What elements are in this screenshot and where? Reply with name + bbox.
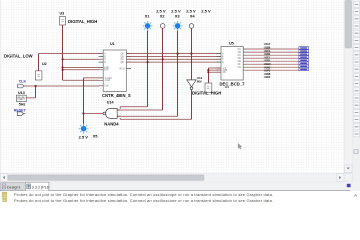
svg-text:5Hz: 5Hz [19,103,26,107]
component U2 (DIGITAL_LOW constant) [35,62,46,80]
node net labels column [264,42,271,79]
svg-text:OB: OB [238,52,242,54]
wire branch to U1 pin ENT [63,69,100,71]
svg-text:DIGITAL_HIGH: DIGITAL_HIGH [68,19,97,24]
pin stubs right of U1 [126,54,131,69]
svg-text:DEC_BCD_7: DEC_BCD_7 [220,81,246,86]
probe X1 (lit) [143,8,166,31]
svg-text:QC: QC [121,59,125,61]
wire branch to U1 pin CLR [63,79,100,81]
svg-text:NAND4: NAND4 [104,121,119,126]
svg-text:U14: U14 [107,100,115,104]
node junction NAND output / X5 [83,113,85,115]
wire U3 vertical to U1 rows [62,25,64,80]
component J1 (blue connector stack) [299,47,309,71]
svg-text:U1K2: U1K2 [264,75,271,79]
pin stubs right of U5 [243,49,248,70]
svg-text:U4: U4 [225,85,229,89]
op U5 (DEC_BCD_7 decoder) [217,42,249,87]
wire NAND input 3 stub [117,115,120,117]
wire QC bus line [127,58,221,60]
svg-text:U13: U13 [18,91,25,95]
probe X5 (lit) [79,124,99,140]
wire segment OD [248,57,299,59]
right toolbar strip [353,0,360,202]
svg-text:DIGITAL_LOW: DIGITAL_LOW [4,54,33,59]
svg-text:X2: X2 [160,14,166,19]
svg-text:X5: X5 [93,134,99,139]
gate U14 NAND4 (mirrored, pointing left) [103,100,119,126]
svg-text:OD: OD [238,58,242,60]
connector RESET input [17,112,25,116]
svg-text:2.5 V: 2.5 V [79,135,89,140]
pin labels U1 [104,53,125,88]
message pane [0,191,360,203]
svg-text:U2: U2 [42,62,47,66]
wire segment OA [248,48,299,50]
svg-text:2.5 V: 2.5 V [201,8,211,13]
svg-text:OC: OC [238,55,242,57]
wire segment OC [248,54,299,56]
op U1 (CNTR_4BIN_S counter) [99,42,131,98]
svg-text:QB: QB [121,56,125,58]
wire X5 node up to U1 ~LOAD [83,78,85,114]
wire INV output to NAND input 4 [191,90,193,120]
wire U4 net to U5 ~LT [208,68,210,83]
svg-text:~CLR: ~CLR [104,80,110,82]
svg-text:OA: OA [238,48,242,51]
svg-text:CLK: CLK [104,86,109,88]
node junction X4/QA [191,53,193,55]
wire U4 branch to U5 ~BI [208,71,220,73]
svg-text:CLK: CLK [19,80,27,84]
svg-text:X1: X1 [145,14,151,19]
wire segment OG [248,66,299,68]
svg-text:U3: U3 [60,11,65,15]
node junction X1/QD [147,61,149,63]
wire QB bus line [127,55,221,57]
node junction U4/~BI [207,71,209,73]
wire probe X1 drop to NAND input 1 [147,28,149,106]
wire U13 output up to CLK line [26,97,35,99]
svg-text:OE: OE [238,61,242,63]
wire probe X3 drop to NAND input 3 [177,28,179,116]
wire segment OF [248,63,299,65]
svg-text:Design1: Design1 [7,186,21,190]
tab 3.3.2 (active) [25,182,49,191]
pin labels U5 [222,48,241,74]
svg-text:Probes do not plot to the Grap: Probes do not plot to the Grapher for in… [14,192,273,197]
horizontal scrollbar [0,174,353,182]
svg-text:3.3.2 (PLD: 3.3.2 (PLD [32,186,50,190]
wire segment OB [248,51,299,53]
node junction U4/~RBI [207,69,209,71]
svg-text:~BI: ~BI [222,72,226,74]
wire U4 branch to U5 ~RBI [208,69,220,71]
gate U12 INV (inverter, pointing down) [187,76,203,89]
component U3 (DIGITAL_HIGH constant) [60,11,98,25]
wire CLK to U1 [26,85,100,87]
tab Design1 (inactive) [1,183,26,191]
node junction X3/QA [177,53,179,55]
svg-text:RCO: RCO [120,69,125,71]
node junction X2/QC [162,58,164,60]
wire QD bus line [127,61,221,63]
node junction dots on U3 net [62,58,64,70]
svg-text:QA: QA [121,53,125,56]
wire branch to U1 pin ENP [63,66,100,68]
wire branch to U1 pin C [63,58,100,60]
probe X3 (lit) [173,8,196,31]
wire segment DP [248,69,305,70]
svg-text:ENT: ENT [104,70,109,72]
connector CLK input [18,84,26,88]
svg-text:QD: QD [121,62,125,64]
probe X2 (off) [160,8,181,28]
pin stubs left of U1 [99,54,104,86]
svg-text:X3: X3 [175,14,181,19]
svg-text:X4: X4 [190,14,196,19]
svg-text:INV: INV [197,80,202,84]
svg-text:U1: U1 [110,42,115,46]
svg-text:CNTR_4BIN_S: CNTR_4BIN_S [102,93,131,98]
svg-text:OG: OG [238,67,242,69]
wire probe X4 drop to INV input [191,28,193,80]
wire probe X2 drop to NAND input 2 [162,28,164,110]
vertical scrollbar [344,0,353,182]
wire X5 node down to probe [83,113,85,126]
svg-text:DIGITAL_HIGH: DIGITAL_HIGH [192,91,221,96]
wire NAND output to X5 node [83,112,103,114]
mouse cursor [238,143,242,149]
wire NAND input 2 stub [117,109,120,111]
component U13 (clock source 5Hz) [17,91,27,107]
svg-text:U5: U5 [229,42,234,46]
component U4 (DIGITAL_HIGH constant) [192,83,229,96]
wire U2 to U1 pin A [38,54,40,71]
tab bar [0,182,360,192]
node junction CLK/U13 [35,85,37,87]
probe X4 (off) [189,8,211,28]
svg-text:Probes do not plot to the Grap: Probes do not plot to the Grapher for in… [14,198,273,202]
wire segment OE [248,60,299,62]
wire QA bus line [127,53,221,55]
pin stubs left of U5 [217,54,222,73]
